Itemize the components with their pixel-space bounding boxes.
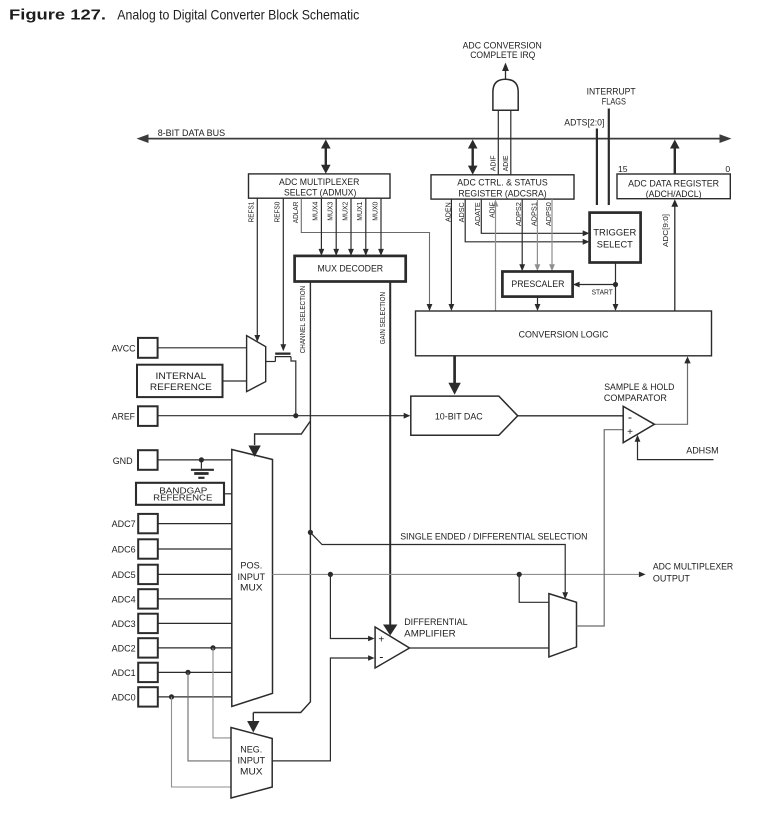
transistor reference pass gate (266, 353, 296, 416)
mux negative input mux (231, 728, 272, 799)
svg-text:ADC MULTIPLEXER: ADC MULTIPLEXER (279, 177, 360, 187)
block PRESCALER box (502, 272, 572, 297)
wire REFS1 (254, 198, 260, 342)
label TRIGGER SELECT (593, 228, 636, 250)
wire channel select to pos mux arrow (248, 421, 310, 457)
label INTERNAL REFERENCE (150, 371, 212, 392)
wire ADC0 to pos mux (158, 696, 232, 698)
wire ADC[9:0] from conversion logic (671, 199, 678, 311)
wire AREF to DAC (158, 413, 411, 419)
wire positive mux output (273, 572, 646, 578)
svg-text:SELECT: SELECT (597, 239, 633, 249)
mux internal reference select (247, 336, 266, 392)
wire ADLAR to conversion logic (301, 198, 432, 311)
wire bus-ADCSRA double arrow (468, 140, 478, 175)
block CONVERSION LOGIC box (416, 311, 712, 356)
wire trigger select to start node (615, 263, 617, 285)
wire ADC0 tap to neg mux (172, 697, 232, 787)
svg-text:ADC3: ADC3 (112, 619, 136, 629)
svg-text:ADEN: ADEN (443, 202, 452, 222)
wire ADC1 tap to neg mux (188, 672, 231, 761)
label ADC CONVERSION COMPLETE IRQ (463, 40, 542, 60)
label DIFFERENTIAL AMPLIFIER (404, 617, 467, 639)
port ADC2 box (138, 638, 158, 657)
svg-text:GND: GND (113, 456, 133, 466)
svg-text:ADTS[2:0]: ADTS[2:0] (564, 118, 604, 128)
svg-text:ADC1: ADC1 (112, 668, 136, 678)
wire neg mux output to diff amp minus (272, 655, 374, 761)
block MUX DECODER box (295, 256, 406, 282)
wire ADIF from conversion logic (493, 200, 499, 312)
port ADC4 box (138, 589, 158, 608)
port AVCC box (138, 338, 158, 358)
mux positive input mux (232, 450, 273, 707)
svg-text:ADC2: ADC2 (112, 643, 136, 653)
svg-text:GAIN SELECTION: GAIN SELECTION (378, 292, 387, 344)
svg-text:REGISTER (ADCSRA): REGISTER (ADCSRA) (458, 189, 546, 199)
svg-text:AVCC: AVCC (112, 344, 136, 354)
port GND box (138, 450, 158, 470)
svg-text:REFS1: REFS1 (246, 202, 255, 223)
wire diff amp output (410, 647, 549, 649)
svg-text:ADC7: ADC7 (112, 519, 136, 529)
wire gain selection (383, 282, 397, 636)
svg-text:ADIF: ADIF (489, 155, 498, 171)
svg-text:MUX1: MUX1 (355, 202, 364, 221)
wire ADPS0 (549, 199, 555, 271)
node ADC2 junction (210, 645, 215, 650)
wire ADC1 to pos mux (158, 671, 232, 673)
node single ended junction (308, 530, 313, 535)
wire ADTS to trigger select (592, 129, 602, 221)
svg-text:SINGLE ENDED / DIFFERENTIAL SE: SINGLE ENDED / DIFFERENTIAL SELECTION (400, 532, 587, 542)
opamp differential amplifier (375, 627, 409, 668)
svg-text:OUTPUT: OUTPUT (653, 573, 690, 583)
wire ADC4 to pos mux (158, 598, 232, 600)
wire data register to bus arrow (670, 140, 680, 175)
svg-text:ADC MULTIPLEXER: ADC MULTIPLEXER (653, 562, 734, 572)
wire ADC5 to pos mux (158, 573, 232, 575)
svg-text:+: + (378, 635, 384, 646)
port ADC5 box (138, 565, 158, 584)
node AREF junction (293, 413, 298, 418)
register ADCSRA box (431, 175, 574, 199)
svg-text:-: - (628, 411, 632, 425)
wire ADPS1 (535, 199, 541, 271)
svg-text:ADHSM: ADHSM (686, 446, 719, 456)
wire GND to pos mux (158, 459, 232, 461)
label BANDGAP REFERENCE (153, 485, 213, 502)
svg-text:AREF: AREF (112, 411, 136, 421)
svg-text:REFERENCE: REFERENCE (153, 493, 213, 503)
port ADC3 box (138, 614, 158, 633)
svg-text:SAMPLE & HOLD: SAMPLE & HOLD (604, 382, 675, 392)
svg-text:INTERNAL: INTERNAL (156, 371, 207, 381)
svg-text:15: 15 (618, 164, 628, 174)
svg-text:COMPLETE IRQ: COMPLETE IRQ (470, 50, 535, 60)
label INTERRUPT FLAGS (587, 87, 636, 107)
port ADC6 box (138, 539, 158, 558)
node output mux tap junction (517, 572, 522, 577)
wire start to conversion logic (613, 285, 619, 312)
svg-text:MUX DECODER: MUX DECODER (318, 264, 384, 274)
label SAMPLE & HOLD COMPARATOR (604, 382, 675, 403)
register ADMUX box (249, 174, 391, 198)
svg-text:MUX3: MUX3 (326, 202, 335, 221)
dac 10-BIT DAC (411, 396, 518, 435)
svg-text:ADIE: ADIE (501, 155, 510, 171)
svg-text:START: START (592, 290, 614, 297)
wire AVCC to reference mux (158, 347, 247, 349)
wire bus-ADMUX double arrow (321, 140, 331, 174)
label ADC DATA REGISTER (ADCH/ADCL) (628, 178, 719, 199)
label ADC MULTIPLEXER SELECT (ADMUX) (279, 177, 360, 198)
wire REFS0 (280, 198, 286, 351)
svg-text:ADC5: ADC5 (112, 570, 136, 580)
wire internal reference to mux (223, 380, 247, 382)
svg-text:ADSC: ADSC (457, 202, 466, 222)
gate AND irq (493, 79, 518, 110)
label ADC CTRL. & STATUS REGISTER (ADCSRA) (457, 178, 547, 199)
wire MUX0 (378, 198, 384, 256)
mux output select (549, 594, 577, 657)
block BANDGAP REFERENCE box (136, 483, 224, 505)
port ADC7 box (138, 514, 158, 533)
svg-text:MUX0: MUX0 (370, 202, 379, 221)
wire MUX2 (348, 198, 354, 256)
node GND junction (199, 457, 204, 462)
wire IRQ output arrow (502, 63, 509, 80)
label ADC MULTIPLEXER OUTPUT (653, 562, 734, 584)
port ADC0 box (138, 687, 158, 706)
svg-text:MUX: MUX (240, 583, 263, 593)
wire 8-bit data bus (137, 134, 732, 143)
svg-text:-: - (379, 650, 383, 664)
svg-text:ADC CONVERSION: ADC CONVERSION (463, 40, 542, 50)
svg-text:ADPS2: ADPS2 (514, 202, 523, 226)
svg-text:SELECT (ADMUX): SELECT (ADMUX) (284, 188, 356, 198)
wire interrupt flags to trigger select (604, 109, 614, 221)
wire tap to output mux (519, 574, 549, 602)
svg-text:REFS0: REFS0 (272, 202, 281, 223)
wire output mux to comparator (577, 430, 623, 626)
svg-text:+: + (627, 427, 633, 438)
svg-text:INPUT: INPUT (238, 572, 266, 582)
wire ADATE to trigger select (481, 199, 589, 236)
node ADC1 junction (185, 670, 190, 675)
wire ADC6 to pos mux (158, 548, 232, 550)
svg-text:Analog to Digital Converter Bl: Analog to Digital Converter Block Schema… (117, 6, 359, 22)
svg-text:CONVERSION LOGIC: CONVERSION LOGIC (519, 330, 609, 340)
svg-text:INTERRUPT: INTERRUPT (587, 87, 636, 97)
wire bandgap to pos mux (224, 493, 232, 495)
wire prescaler to conversion logic (535, 297, 541, 311)
svg-text:ADATE: ADATE (473, 202, 482, 226)
svg-text:0: 0 (725, 164, 730, 174)
svg-text:ADLAR: ADLAR (291, 202, 300, 224)
ground symbol (191, 460, 214, 478)
wire ADC2 to pos mux (158, 647, 232, 649)
svg-text:ADC0: ADC0 (112, 692, 136, 702)
svg-text:POS.: POS. (240, 561, 262, 571)
svg-text:MUX: MUX (240, 767, 263, 777)
wire MUX3 (333, 198, 339, 256)
label NEG. INPUT MUX (238, 745, 266, 777)
wire ADIE gate input (510, 110, 512, 174)
port AREF box (138, 406, 158, 426)
svg-text:INPUT: INPUT (238, 756, 266, 766)
wire ADPS2 (519, 199, 525, 271)
svg-text:TRIGGER: TRIGGER (593, 228, 636, 238)
svg-text:AMPLIFIER: AMPLIFIER (404, 629, 456, 639)
node start junction (613, 282, 618, 287)
svg-text:COMPARATOR: COMPARATOR (604, 393, 667, 403)
port ADC1 box (138, 663, 158, 682)
wire DAC to comparator minus (518, 415, 623, 417)
wire start to prescaler (573, 282, 616, 288)
wire MUX4 (319, 198, 325, 256)
svg-text:DIFFERENTIAL: DIFFERENTIAL (404, 617, 467, 627)
wire ADC3 to pos mux (158, 622, 232, 624)
svg-text:ADC DATA REGISTER: ADC DATA REGISTER (628, 178, 719, 188)
wire ADSC to trigger select (465, 199, 589, 245)
svg-text:MUX2: MUX2 (340, 202, 349, 221)
wire ADC7 to pos mux (158, 523, 232, 525)
wire conversion logic to DAC thick arrow (448, 356, 460, 395)
svg-text:ADPS1: ADPS1 (529, 202, 538, 226)
svg-text:10-BIT DAC: 10-BIT DAC (435, 412, 483, 422)
wire ADEN (449, 199, 455, 311)
svg-text:CHANNEL SELECTION: CHANNEL SELECTION (298, 286, 307, 354)
register ADC data register box (617, 174, 730, 199)
wire single ended selection (310, 532, 568, 599)
svg-text:Figure 127.: Figure 127. (9, 7, 106, 23)
svg-text:ADPS0: ADPS0 (544, 202, 553, 226)
svg-text:PRESCALER: PRESCALER (511, 279, 564, 289)
svg-text:ADC CTRL. & STATUS: ADC CTRL. & STATUS (457, 178, 547, 188)
label POS. INPUT MUX (238, 561, 266, 593)
svg-text:REFERENCE: REFERENCE (150, 382, 212, 392)
svg-text:ADC[9:0]: ADC[9:0] (661, 214, 670, 247)
wire ADC2 tap to neg mux (213, 648, 231, 738)
wire channel selection (253, 282, 310, 713)
wire channel select to neg mux arrow (247, 713, 259, 733)
svg-text:ADC4: ADC4 (112, 594, 136, 604)
title Figure 127 (9, 6, 359, 23)
node diff amp tap junction (328, 572, 333, 577)
svg-text:ADIF: ADIF (487, 202, 496, 218)
svg-text:(ADCH/ADCL): (ADCH/ADCL) (646, 189, 702, 199)
svg-text:FLAGS: FLAGS (602, 97, 626, 107)
wire tap to diff amp plus (330, 574, 374, 641)
comparator sample and hold (623, 406, 654, 442)
wire ADHSM (635, 435, 714, 460)
svg-text:ADC6: ADC6 (112, 544, 136, 554)
wire ADIF gate input (497, 110, 499, 174)
svg-text:NEG.: NEG. (240, 745, 262, 755)
svg-text:MUX4: MUX4 (311, 202, 320, 221)
block INTERNAL REFERENCE box (137, 365, 223, 397)
node ADC0 junction (169, 694, 174, 699)
wire comparator feedback to conversion logic (654, 356, 690, 424)
svg-text:8-BIT DATA BUS: 8-BIT DATA BUS (158, 128, 225, 138)
wire MUX1 (363, 198, 369, 256)
block TRIGGER SELECT box (590, 213, 641, 263)
